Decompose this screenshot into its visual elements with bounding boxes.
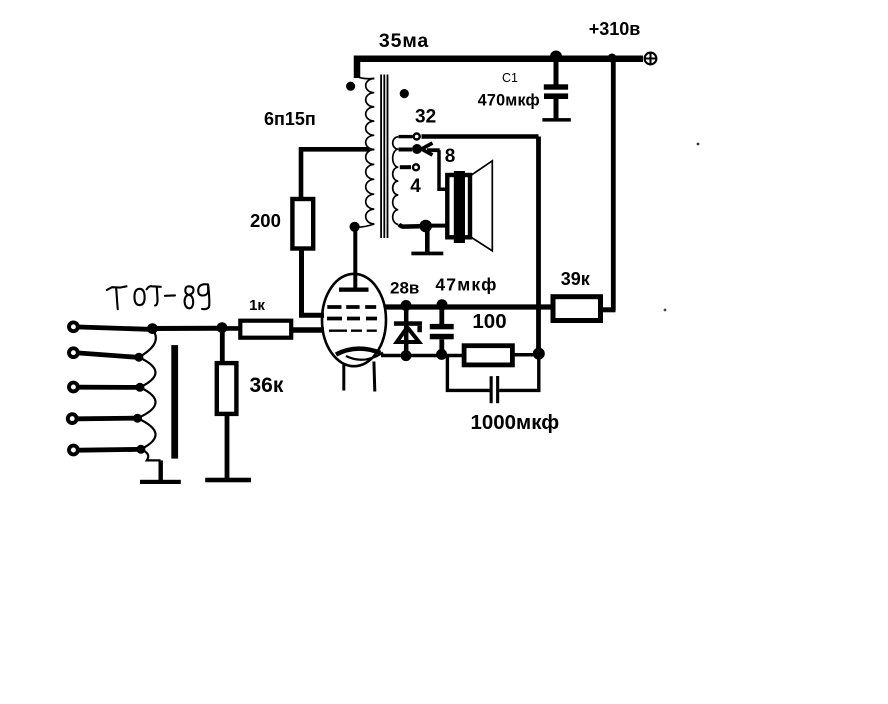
node T2 tap 2 bbox=[134, 353, 143, 362]
ground 36к bbox=[205, 478, 251, 483]
svg-text:28в: 28в bbox=[390, 279, 419, 298]
capacitor 47мкф bbox=[430, 305, 454, 355]
svg-text:470мкф: 470мкф bbox=[478, 92, 540, 110]
svg-text:C1: C1 bbox=[502, 71, 518, 85]
wire tap32 to feedback bbox=[422, 134, 539, 138]
tube anode plate bbox=[339, 288, 369, 292]
node input top junction bbox=[147, 323, 158, 334]
node 100 right junction bbox=[533, 348, 545, 360]
node secondary phase dot bbox=[400, 89, 409, 98]
wire heater leg left bbox=[342, 364, 345, 391]
svg-text:32: 32 bbox=[415, 106, 436, 127]
resistor 100 bbox=[464, 346, 512, 365]
wire right rail bbox=[611, 59, 616, 311]
capacitor C1 470мкф bbox=[544, 57, 568, 119]
speaker LS1 bbox=[447, 161, 492, 251]
tube heater arc bbox=[346, 353, 383, 360]
resistor 200 bbox=[292, 199, 313, 249]
wire input lead 2 bbox=[79, 353, 136, 357]
svg-text:35ма: 35ма bbox=[379, 30, 429, 52]
node tap 8 bbox=[412, 144, 422, 154]
svg-text:6п15п: 6п15п bbox=[264, 109, 316, 129]
terminal input 1 bbox=[69, 322, 78, 331]
wire 36к bottom bbox=[225, 414, 230, 479]
node diode bottom bbox=[401, 350, 412, 361]
svg-text:+310в: +310в bbox=[589, 19, 641, 39]
node secondary bottom junction bbox=[419, 220, 432, 233]
tube grid g1 dashes bbox=[329, 330, 377, 332]
wire 1к to tube g1 bbox=[291, 327, 324, 332]
transformer T1 secondary winding bbox=[393, 137, 399, 225]
wire tap4 lead bbox=[400, 165, 411, 169]
svg-text:1000мкф: 1000мкф bbox=[470, 411, 559, 434]
capacitor 1000мкф bbox=[447, 354, 538, 404]
resistor 36к bbox=[217, 363, 237, 414]
wire input lead 5 bbox=[79, 447, 138, 453]
ground C1 bbox=[542, 118, 570, 122]
wire to 1к bbox=[222, 326, 240, 331]
node T2 tap 3 bbox=[135, 383, 144, 392]
tube grid g3 dashes bbox=[327, 305, 376, 309]
wire input lead 4 bbox=[78, 416, 134, 421]
svg-text:1к: 1к bbox=[249, 297, 265, 314]
wire to speaker bbox=[431, 224, 448, 228]
wire B+ top rail bbox=[357, 59, 643, 78]
wire cathode top to 39к bbox=[384, 304, 553, 309]
ground speaker bbox=[411, 231, 443, 255]
wire secondary bottom bbox=[399, 224, 420, 226]
wire anode lead bbox=[353, 228, 357, 289]
node 36к junction bbox=[217, 322, 228, 333]
wire input lead 3 bbox=[79, 385, 137, 390]
wire feedback vertical bbox=[536, 137, 541, 354]
terminal input 5 bbox=[69, 446, 78, 455]
transformer T1 primary winding bbox=[355, 74, 374, 227]
node C1 top junction bbox=[550, 51, 562, 63]
wire 39к right bbox=[601, 307, 616, 312]
wire heater leg right bbox=[372, 362, 376, 392]
node stray dot 2 bbox=[664, 309, 667, 312]
tube V1 6п15п envelope bbox=[322, 274, 386, 366]
transformer T2 TOT-89 winding bbox=[138, 329, 161, 460]
node T2 tap 4 bbox=[133, 414, 142, 423]
wire screen tap bbox=[301, 149, 370, 199]
terminal +310в plus bbox=[645, 53, 657, 65]
terminal input 4 bbox=[68, 414, 77, 423]
terminal tap 4 bbox=[413, 164, 419, 170]
resistor 39к bbox=[553, 297, 601, 321]
diode VD1 zener bbox=[394, 306, 422, 356]
wire 100 right bbox=[512, 353, 536, 357]
node T2 tap 5 bbox=[136, 445, 145, 454]
svg-text:47мкф: 47мкф bbox=[435, 275, 497, 295]
transformer T2 core bbox=[171, 345, 178, 459]
tube cathode arc bbox=[336, 349, 381, 355]
svg-text:200: 200 bbox=[250, 210, 281, 231]
transformer T1 core bbox=[381, 75, 387, 239]
node primary phase dot bbox=[346, 82, 355, 91]
terminal tap 32 bbox=[414, 134, 420, 140]
wire tap8 arrow bbox=[422, 143, 449, 189]
node 47мкф top bbox=[437, 299, 448, 310]
wire cathode bottom bbox=[381, 354, 464, 358]
wire input top bbox=[152, 326, 222, 331]
node stray dot 1 bbox=[697, 143, 700, 146]
svg-text:8: 8 bbox=[445, 146, 456, 167]
svg-text:4: 4 bbox=[410, 176, 421, 197]
resistor 1к bbox=[240, 321, 291, 338]
wire 36к top bbox=[220, 328, 225, 364]
wire input lead 1 bbox=[79, 327, 149, 329]
terminal input 2 bbox=[69, 348, 78, 357]
wire 200 to tube g2 bbox=[302, 249, 325, 316]
terminal input 3 bbox=[69, 383, 78, 392]
node 47мкф bottom bbox=[436, 349, 447, 360]
node right rail junction bbox=[608, 54, 617, 63]
svg-text:36к: 36к bbox=[250, 374, 284, 397]
ground T2 bbox=[140, 460, 181, 484]
wire tap8 lead bbox=[399, 148, 413, 152]
tube grid g2 dashes bbox=[327, 317, 377, 321]
svg-text:39к: 39к bbox=[561, 269, 591, 289]
svg-text:100: 100 bbox=[472, 310, 506, 333]
node primary bottom junction bbox=[350, 222, 360, 232]
node diode top bbox=[401, 300, 412, 311]
wire tap32 lead bbox=[399, 135, 413, 138]
label TOT-89 handwritten bbox=[107, 284, 210, 309]
